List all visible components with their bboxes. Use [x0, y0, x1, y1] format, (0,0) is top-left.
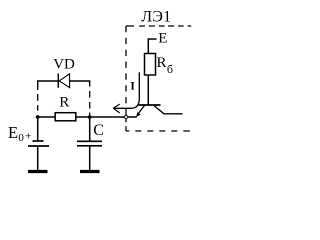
svg-text:I: I	[130, 78, 135, 92]
transistor VT base bar	[139, 104, 161, 106]
node junction dot right	[88, 115, 92, 119]
wire dashed right branch	[89, 91, 91, 115]
node diamond input terminal	[124, 115, 128, 120]
svg-text:0: 0	[18, 132, 24, 144]
svg-text:E: E	[8, 123, 18, 142]
diode VD cathode bar	[57, 74, 59, 88]
battery E0 short plate	[33, 140, 44, 142]
wire dashed left branch	[37, 94, 39, 111]
transistor emitter	[139, 106, 145, 113]
capacitor C bottom plate	[77, 145, 102, 147]
ground bar left	[28, 170, 48, 173]
wire E0 lead	[37, 117, 39, 140]
wire diode row with corners	[38, 81, 90, 90]
wire to E supply	[148, 39, 156, 55]
wire C to ground	[89, 147, 91, 170]
wire base lead	[147, 75, 149, 104]
dashed box top edge	[126, 25, 191, 27]
wire battery to ground	[37, 147, 39, 170]
battery E0 long plate	[28, 145, 49, 147]
resistor R6	[145, 54, 156, 76]
resistor R	[55, 113, 76, 121]
dashed box bottom edge	[126, 130, 190, 132]
ground bar right	[80, 170, 100, 173]
svg-text:ЛЭ1: ЛЭ1	[141, 8, 171, 25]
wire C lead	[89, 117, 91, 141]
dashed box left edge lower stub	[125, 120, 127, 132]
diode VD triangle	[59, 74, 69, 88]
transistor collector	[154, 106, 183, 114]
wire main horizontal	[38, 116, 137, 118]
node junction dot left	[36, 115, 40, 119]
svg-text:б: б	[167, 62, 173, 76]
svg-text:R: R	[59, 95, 69, 111]
dashed box left edge	[125, 26, 127, 115]
svg-text:VD: VD	[53, 56, 75, 72]
svg-text:C: C	[93, 122, 104, 139]
capacitor C top plate	[77, 140, 102, 142]
svg-text:E: E	[158, 31, 167, 47]
current arrow I	[114, 72, 139, 108]
svg-text:+: +	[25, 131, 32, 143]
svg-text:R: R	[157, 55, 167, 71]
